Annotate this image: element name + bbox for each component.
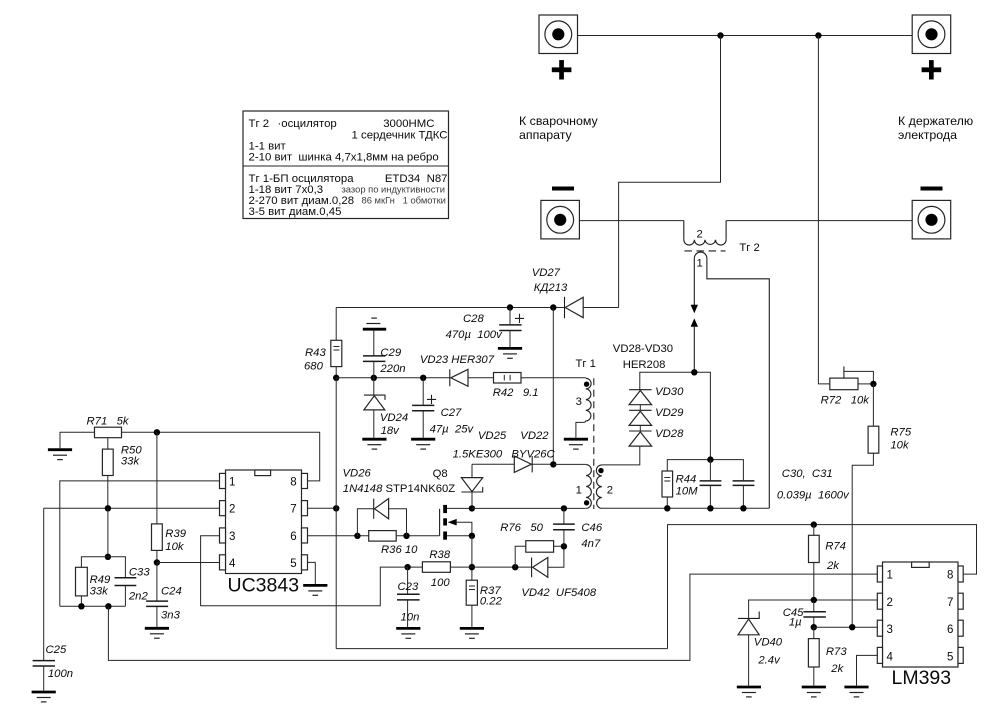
- node C30 top: [707, 456, 713, 462]
- wire pin6 to gate: [308, 535, 440, 537]
- svg-text:VD22: VD22: [520, 430, 549, 442]
- svg-text:33k: 33k: [121, 456, 141, 468]
- svg-text:Тг 2: Тг 2: [739, 242, 759, 254]
- wire top rail between + connectors: [578, 35, 913, 37]
- polarity dot winding 3: [584, 382, 589, 387]
- resistor R50: [102, 438, 113, 509]
- svg-text:VD28: VD28: [655, 428, 684, 440]
- wire pin2 LM393: [749, 600, 878, 618]
- svg-text:UC3843: UC3843: [228, 575, 300, 597]
- resistor R73: [808, 627, 819, 685]
- wire source down to R37: [471, 536, 473, 580]
- svg-text:86 мкГн 1 обмотки: 86 мкГн 1 обмотки: [362, 195, 446, 206]
- wire R49 C33 bottom: [60, 605, 126, 607]
- zener VD24: [364, 378, 385, 438]
- svg-text:К сварочному: К сварочному: [519, 114, 599, 128]
- diode VD29: [629, 410, 652, 431]
- svg-text:2k: 2k: [830, 663, 844, 675]
- note box: [243, 111, 449, 219]
- svg-text:10n: 10n: [401, 612, 420, 624]
- svg-text:VD40: VD40: [754, 637, 783, 649]
- svg-text:6: 6: [947, 624, 953, 636]
- resistor R75: [852, 384, 879, 627]
- svg-text:1: 1: [576, 485, 582, 497]
- svg-text:47µ 25v: 47µ 25v: [430, 424, 475, 436]
- capacitor C31: [733, 481, 755, 508]
- wire Vcc distribution to LM393: [668, 525, 977, 649]
- svg-text:R43: R43: [305, 347, 326, 359]
- node C30 bottom: [707, 505, 713, 511]
- capacitor C46: [553, 508, 575, 546]
- polarity dot winding 1: [584, 500, 589, 505]
- spark gap arrow up: [691, 318, 698, 326]
- svg-text:C29: C29: [380, 347, 401, 359]
- svg-text:10k: 10k: [165, 541, 185, 553]
- node C31 bottom: [740, 505, 746, 511]
- capacitor C45: [803, 600, 826, 627]
- svg-text:R44: R44: [676, 474, 697, 486]
- wire VD25 top to VD22: [472, 463, 514, 465]
- node R43 bottom: [333, 375, 339, 381]
- TVS diode VD25 (1.5KE300): [461, 464, 482, 508]
- svg-text:аппарату: аппарату: [519, 128, 573, 142]
- node Q8 source: [469, 533, 475, 539]
- svg-text:КД213: КД213: [534, 282, 568, 294]
- wire pin4 LM393 to ground: [857, 655, 878, 685]
- capacitor C30: [700, 460, 722, 509]
- svg-text:C28: C28: [463, 313, 484, 325]
- node R38 right: [469, 564, 475, 570]
- svg-text:3000НМС: 3000НМС: [383, 118, 434, 130]
- capacitor C28: [499, 308, 524, 348]
- transformer Tr1 core: [593, 378, 595, 509]
- wire source line to VD42: [472, 546, 564, 567]
- diode VD27: [565, 297, 584, 318]
- node VD22 branch: [550, 304, 556, 310]
- wire from node top-B down to R72: [818, 36, 829, 384]
- svg-text:R73: R73: [826, 646, 847, 658]
- svg-text:3-5 вит диам.0,45: 3-5 вит диам.0,45: [249, 206, 342, 218]
- node R71 right: [154, 429, 160, 435]
- wire node VD22 down: [552, 308, 554, 465]
- svg-text:7: 7: [290, 504, 296, 516]
- transistor Q8 MOSFET: [440, 505, 472, 540]
- svg-text:0.22: 0.22: [480, 596, 503, 608]
- svg-text:R75: R75: [890, 427, 911, 439]
- ground VD40: [737, 687, 761, 697]
- node R44 bottom: [664, 505, 670, 511]
- wire pin1: [60, 481, 220, 606]
- node VD22 cathode junction: [550, 461, 556, 467]
- wire drain to Tr1 winding 1 bottom: [472, 507, 586, 509]
- svg-text:электрода: электрода: [898, 128, 957, 142]
- wire pin5 to ground: [308, 562, 316, 584]
- svg-text:R76 50: R76 50: [500, 522, 543, 534]
- svg-text:1: 1: [887, 570, 893, 582]
- wire supply rail y307: [336, 307, 564, 309]
- svg-text:3: 3: [887, 624, 893, 636]
- wire Vcc line A: [336, 648, 667, 650]
- svg-text:470µ 100v: 470µ 100v: [446, 329, 503, 341]
- connector X2 (to electrode holder +): [912, 15, 951, 80]
- capacitor C24: [146, 563, 168, 627]
- node C27: [420, 375, 426, 381]
- svg-text:VD26: VD26: [343, 468, 372, 480]
- svg-text:2-10 вит шинка 4,7х1,8мм на р: 2-10 вит шинка 4,7х1,8мм на ребро: [249, 152, 439, 164]
- potentiometer R72: [830, 366, 874, 389]
- svg-text:зазор по индуктивности: зазор по индуктивности: [342, 184, 445, 195]
- svg-text:Тг 1: Тг 1: [576, 358, 596, 370]
- diode VD28: [629, 431, 652, 446]
- svg-text:R39: R39: [165, 528, 186, 540]
- node pin7 Vcc: [333, 505, 339, 511]
- node R72 wiper: [870, 381, 876, 387]
- transformer Tr1 winding 3: [576, 378, 591, 438]
- svg-text:1: 1: [697, 258, 703, 270]
- svg-text:VD30: VD30: [655, 386, 684, 398]
- node feedback bottom: [105, 603, 111, 609]
- svg-text:680: 680: [304, 361, 324, 373]
- connector X1 (to welder +): [539, 15, 578, 80]
- svg-text:3: 3: [576, 396, 582, 408]
- node C46 bottom: [561, 543, 567, 549]
- svg-text:33k: 33k: [90, 586, 110, 598]
- wire long feedback line B: [108, 574, 877, 660]
- wire to Tr1 winding 1 top: [553, 463, 586, 465]
- node R74 top: [811, 521, 817, 527]
- svg-text:18v: 18v: [381, 425, 401, 437]
- svg-text:C46: C46: [581, 522, 602, 534]
- svg-text:3n3: 3n3: [161, 610, 181, 622]
- spark gap arrow down: [693, 304, 695, 306]
- svg-text:100n: 100n: [48, 668, 73, 680]
- capacitor C23: [397, 567, 420, 627]
- svg-text:VD23 HER307: VD23 HER307: [420, 354, 495, 366]
- zener VD40: [738, 612, 759, 686]
- node C45 top: [811, 597, 817, 603]
- wire from node top-A down to VD27 wire: [619, 36, 721, 308]
- svg-text:R42 9.1: R42 9.1: [493, 387, 539, 399]
- svg-text:К держателю: К держателю: [898, 114, 973, 128]
- op-amp U1 UC3843 body: [220, 470, 308, 574]
- svg-text:R49: R49: [90, 574, 111, 586]
- node Q8 drain: [469, 505, 475, 511]
- resistor R36: [369, 531, 397, 542]
- svg-text:2k: 2k: [826, 560, 840, 572]
- wire Tr1 winding 2 bottom rail: [602, 507, 770, 509]
- svg-text:LM393: LM393: [892, 667, 952, 689]
- svg-text:C30, C31: C30, C31: [782, 468, 833, 480]
- svg-text:4: 4: [887, 652, 894, 664]
- ground C27: [411, 439, 435, 449]
- capacitor C25: [33, 508, 55, 690]
- svg-text:STP14NK60Z: STP14NK60Z: [386, 483, 456, 495]
- svg-text:Q8: Q8: [433, 468, 448, 480]
- node R36 right: [403, 533, 409, 539]
- svg-text:VD24: VD24: [380, 412, 408, 424]
- node C28: [507, 304, 513, 310]
- diode VD22: [514, 456, 553, 472]
- resistor R76: [515, 541, 564, 568]
- ground R37: [460, 628, 484, 638]
- wire pin3 loop: [201, 536, 408, 606]
- svg-text:VD25: VD25: [478, 430, 507, 442]
- transformer Tr1 winding 2: [596, 446, 639, 508]
- svg-text:2.4v: 2.4v: [757, 655, 781, 667]
- ground VD24: [362, 439, 386, 449]
- node C46 top: [561, 505, 567, 511]
- svg-text:1.5KE300: 1.5KE300: [453, 449, 503, 461]
- capacitor C27: [412, 378, 436, 438]
- svg-text:10k: 10k: [890, 440, 910, 452]
- ground pin4: [844, 687, 868, 697]
- svg-text:2: 2: [697, 229, 703, 241]
- capacitor C33: [115, 578, 137, 607]
- wire X3 to Tr2 winding 2: [579, 220, 683, 222]
- wire R50 to divider top: [107, 508, 109, 557]
- resistor R74: [809, 525, 820, 600]
- ground pin5: [303, 585, 327, 595]
- wire pin7 stub: [308, 507, 337, 509]
- node R49 bottom: [78, 603, 84, 609]
- ground C24: [145, 628, 169, 638]
- svg-text:R36 10: R36 10: [381, 544, 418, 556]
- node C45 bottom: [811, 624, 817, 630]
- wire pin4: [157, 562, 220, 564]
- svg-text:2: 2: [607, 485, 613, 497]
- resistor R39: [152, 524, 163, 563]
- wire pin3 LM393: [814, 626, 878, 628]
- diode VD26: [357, 499, 406, 536]
- wire Vcc vertical x336: [335, 378, 337, 649]
- svg-text:6: 6: [290, 531, 296, 543]
- transformer Tr2 winding 2: [684, 221, 726, 246]
- svg-text:VD27: VD27: [532, 267, 561, 279]
- svg-text:100: 100: [431, 577, 451, 589]
- svg-text:R71 5k: R71 5k: [87, 416, 130, 428]
- svg-text:5: 5: [947, 652, 953, 664]
- svg-text:HER208: HER208: [623, 359, 666, 371]
- wire spark gap to rectifier rail: [693, 326, 695, 372]
- ground R73: [802, 687, 826, 697]
- wire pin2: [44, 507, 220, 509]
- diode VD23: [450, 369, 468, 386]
- wire R44 top rail: [667, 460, 743, 481]
- svg-text:R74: R74: [825, 541, 846, 553]
- node R36 left: [354, 533, 360, 539]
- resistor R37: [466, 580, 477, 627]
- node C23: [404, 564, 410, 570]
- ground C28: [498, 348, 522, 358]
- svg-text:5: 5: [290, 558, 296, 570]
- resistor R38: [408, 562, 472, 573]
- node spark gap rail: [691, 369, 697, 375]
- svg-text:VD28-VD30: VD28-VD30: [613, 343, 673, 355]
- node top-B: [815, 32, 821, 38]
- node R75 pin3: [849, 624, 855, 630]
- svg-text:3: 3: [229, 531, 235, 543]
- diode VD42: [532, 558, 548, 578]
- svg-text:C24: C24: [161, 586, 182, 598]
- svg-text:C27: C27: [441, 407, 462, 419]
- transformer Tr1 winding 1: [586, 465, 591, 509]
- svg-text:2: 2: [887, 597, 893, 609]
- transformer Tr2 winding 1 (single loop): [694, 252, 769, 508]
- wire feedback rail y377: [336, 377, 586, 379]
- svg-text:4n7: 4n7: [581, 538, 601, 550]
- resistor R44: [662, 471, 673, 508]
- capacitor C29 with inverted ground on top: [363, 318, 386, 378]
- resistor R71: [60, 427, 320, 481]
- svg-text:R72 10k: R72 10k: [821, 395, 871, 407]
- svg-text:7: 7: [947, 597, 953, 609]
- resistor R42: [494, 373, 522, 384]
- ground C25: [32, 692, 56, 702]
- svg-text:Тг 2 ·осцилятор: Тг 2 ·осцилятор: [249, 118, 337, 130]
- svg-text:2: 2: [229, 504, 235, 516]
- comparator U2 LM393 body: [877, 562, 963, 667]
- resistor R43: [331, 308, 342, 378]
- ground R71: [48, 450, 72, 460]
- wire divider vertical x157: [156, 432, 158, 524]
- svg-text:C33: C33: [129, 567, 150, 579]
- svg-text:4: 4: [229, 558, 236, 570]
- svg-text:1µ: 1µ: [789, 617, 802, 629]
- svg-text:BYV26C: BYV26C: [511, 449, 555, 461]
- svg-text:10M: 10M: [676, 486, 699, 498]
- svg-text:220n: 220n: [379, 363, 405, 375]
- node pin4: [154, 559, 160, 565]
- svg-text:1 сердечник ТДКС: 1 сердечник ТДКС: [352, 130, 448, 142]
- diode VD30: [629, 390, 652, 411]
- wire R49 C33 top: [81, 557, 125, 577]
- connector X3 (to welder -): [541, 187, 580, 239]
- node R76 left: [512, 564, 518, 570]
- ground Tr1 winding 3: [564, 439, 588, 449]
- svg-text:1N4148: 1N4148: [343, 483, 383, 495]
- ground C23: [396, 628, 420, 638]
- svg-text:8: 8: [290, 477, 296, 489]
- core Tr2: [684, 250, 725, 252]
- svg-text:R38: R38: [429, 549, 450, 561]
- svg-text:C25: C25: [46, 644, 67, 656]
- node divider top: [105, 554, 111, 560]
- node C29: [371, 375, 377, 381]
- svg-text:2n2: 2n2: [128, 591, 149, 603]
- svg-text:C23: C23: [398, 581, 419, 593]
- svg-text:VD42 UF5408: VD42 UF5408: [521, 587, 596, 599]
- node top-A: [717, 32, 723, 38]
- svg-text:8: 8: [947, 570, 953, 582]
- wire VD27 anode to corner: [583, 307, 618, 309]
- polarity dot winding 2: [598, 468, 603, 473]
- svg-text:VD29: VD29: [655, 407, 684, 419]
- resistor R49: [76, 567, 88, 606]
- wire rectifier top rail: [640, 372, 711, 459]
- connector X4 (to electrode holder -): [912, 187, 951, 239]
- node R50 bottom: [105, 505, 111, 511]
- svg-text:1: 1: [229, 477, 235, 489]
- svg-text:0.039µ 1600v: 0.039µ 1600v: [777, 490, 850, 502]
- wire Tr2 winding 2 to X4: [726, 220, 912, 222]
